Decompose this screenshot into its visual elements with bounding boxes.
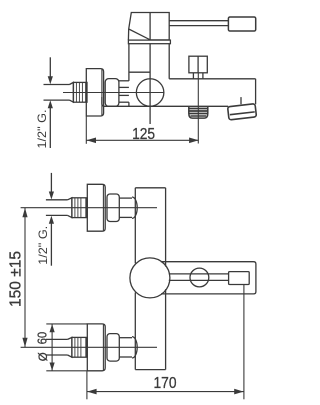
svg-text:170: 170 (154, 375, 177, 392)
svg-text:125: 125 (132, 126, 155, 143)
svg-text:1/2" G.: 1/2" G. (35, 110, 49, 149)
svg-text:Ø: Ø (38, 352, 50, 361)
svg-text:150 ±15: 150 ±15 (8, 251, 25, 307)
svg-text:1/2" G.: 1/2" G. (36, 226, 50, 265)
svg-text:60: 60 (35, 332, 50, 344)
